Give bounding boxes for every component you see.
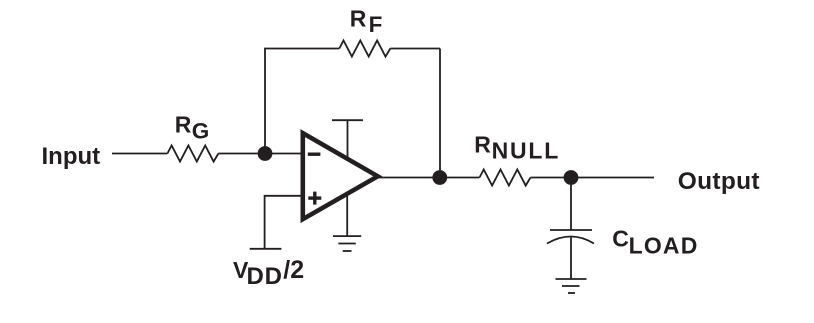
wire input to RG [112, 153, 167, 155]
wire negative supply stub [346, 195, 348, 236]
op-amp U1 [303, 133, 378, 219]
label RNULL [474, 132, 560, 164]
svg-text:LOAD: LOAD [629, 232, 699, 258]
svg-text:/2: /2 [283, 256, 304, 284]
resistor RG [167, 145, 218, 161]
svg-text:R: R [350, 6, 367, 32]
label RF [350, 6, 383, 37]
wire RNULL to output [531, 177, 655, 179]
wire feedback up and across [265, 49, 339, 154]
svg-text:R: R [175, 111, 192, 137]
svg-text:DD: DD [247, 263, 283, 290]
svg-text:C: C [612, 226, 629, 252]
power positive supply rail bar [332, 119, 363, 121]
node C (load junction) [564, 170, 579, 185]
svg-text:Input: Input [42, 143, 101, 170]
wire CLOAD to ground [570, 238, 572, 280]
svg-text:G: G [192, 119, 210, 144]
resistor RF [339, 40, 390, 56]
label CLOAD [612, 226, 698, 259]
ground (load) [556, 279, 587, 293]
power VDD/2 terminal bar [250, 248, 282, 250]
wire feedback down to output node [439, 49, 441, 178]
wire non-inverting input [265, 196, 303, 249]
node B (output feedback junction) [432, 170, 447, 185]
svg-text:Output: Output [678, 168, 760, 195]
svg-text:F: F [369, 12, 383, 37]
resistor RNULL [480, 169, 531, 185]
node A (inverting input junction) [258, 146, 273, 161]
op-amp plus pin label [308, 192, 321, 205]
label VDD/2 [233, 256, 304, 290]
svg-text:R: R [474, 132, 491, 158]
wire node C down to CLOAD [570, 178, 572, 231]
wire op-amp output to RNULL [378, 177, 480, 179]
capacitor CLOAD [547, 230, 594, 244]
svg-text:NULL: NULL [492, 137, 561, 163]
ground (op-amp negative supply) [333, 236, 361, 251]
wire RG to inverting input [218, 153, 302, 155]
label RG [175, 111, 210, 143]
wire RF to feedback right [390, 48, 440, 50]
wire positive supply stub [347, 120, 349, 159]
op-amp minus pin label [308, 152, 321, 155]
